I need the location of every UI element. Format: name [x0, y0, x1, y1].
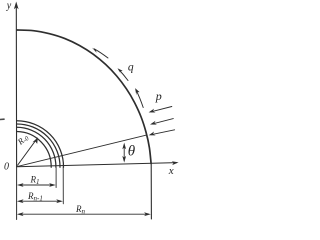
- svg-text:p: p: [155, 89, 162, 103]
- inner arc Rn-1: [17, 121, 64, 168]
- q arrow 1: [92, 48, 108, 58]
- Rn extension line (right, below x-axis): [150, 163, 152, 219]
- svg-text:q: q: [128, 61, 134, 73]
- theta measure double arrow: [122, 143, 126, 163]
- inner arc R0: [17, 132, 51, 168]
- inner arc R2: [17, 124, 60, 167]
- p arrow 1: [149, 107, 172, 113]
- p arrow 3: [149, 130, 175, 136]
- R0 radius arrow: [18, 137, 38, 165]
- R1 dimension line: [17, 183, 56, 187]
- inner arc R1: [17, 127, 56, 167]
- svg-text:x: x: [168, 165, 174, 177]
- R1 extension line: [55, 167, 57, 188]
- svg-text:y: y: [6, 1, 12, 12]
- p arrow 2: [150, 119, 173, 125]
- Rn dimension line: [17, 212, 151, 216]
- outer arc Rn: [17, 30, 151, 164]
- theta radial line: [17, 135, 147, 167]
- y-axis lower extension: [16, 167, 18, 220]
- scan mark (left edge): [0, 118, 4, 120]
- x-axis: [17, 161, 179, 167]
- Rn-1 extension line: [62, 167, 64, 204]
- y-axis: [14, 2, 19, 167]
- q arrow 2: [118, 68, 129, 80]
- q arrow 3: [135, 88, 143, 107]
- svg-text:θ: θ: [128, 144, 136, 160]
- svg-text:0: 0: [4, 162, 9, 173]
- Rn-1 dimension line: [17, 199, 63, 203]
